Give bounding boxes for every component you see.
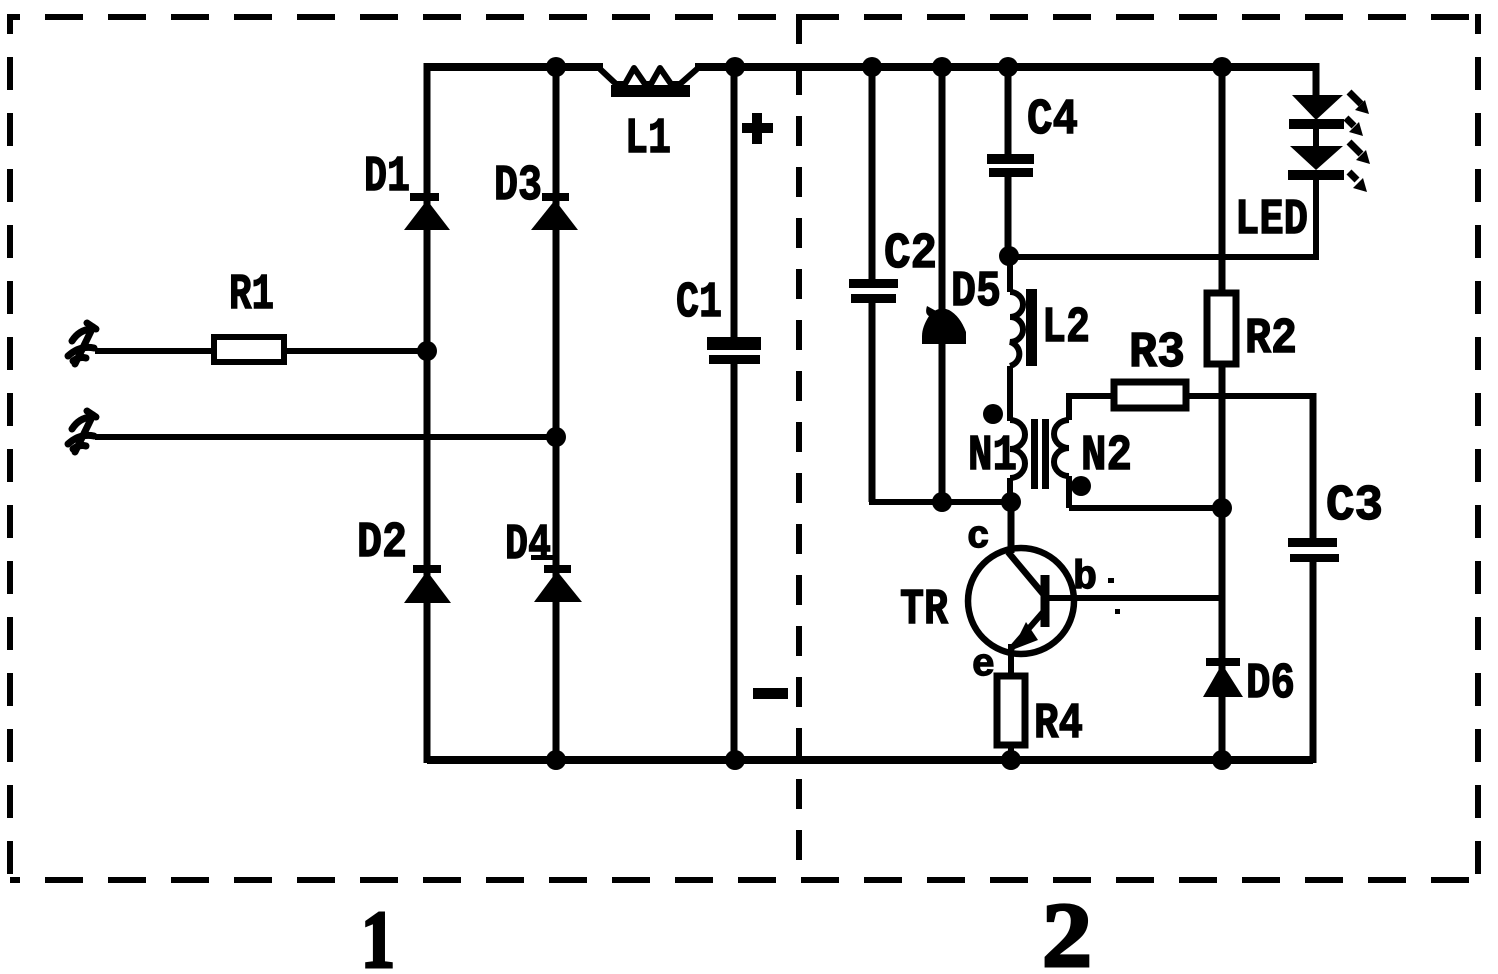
wire D1-D2 branch vertical: [424, 63, 431, 763]
wire N2 bottom row: [1069, 505, 1222, 511]
transformer winding N2: [1054, 394, 1069, 508]
junction dot bottom rail at C1: [725, 750, 745, 770]
svg-text:N1: N1: [968, 428, 1017, 485]
resistor R2: [1207, 293, 1236, 364]
svg-text:R3: R3: [1129, 325, 1185, 382]
LED branch wire: [1313, 63, 1320, 97]
diode D5 branch: [939, 63, 946, 502]
svg-text:c: c: [967, 516, 990, 559]
junction dot top rail at D5: [932, 57, 952, 77]
svg-text:D5: D5: [951, 264, 1001, 321]
capacitor C2: [849, 63, 898, 502]
bottom rail: [427, 756, 1313, 764]
svg-text:1: 1: [361, 894, 395, 974]
diode D2: [404, 565, 451, 603]
wire D3-D4 branch vertical: [553, 66, 560, 763]
junction dot top rail at C2: [862, 57, 882, 77]
minus sign of C1: [753, 688, 788, 699]
junction dot N2 row at R2 branch: [1212, 498, 1232, 518]
svg-text:R1: R1: [229, 267, 274, 324]
LED arrows 2: [1349, 142, 1370, 192]
svg-text:2: 2: [1042, 884, 1092, 974]
node B junction dot: [546, 427, 566, 447]
svg-text:LED: LED: [1235, 192, 1308, 249]
svg-text:L2: L2: [1042, 300, 1090, 357]
junction dot bottom rail at D6: [1212, 750, 1232, 770]
junction dot top rail at C1: [725, 57, 745, 77]
svg-text:R4: R4: [1034, 696, 1083, 753]
printing specks near b: [1108, 578, 1114, 583]
plus sign of C1: [742, 113, 773, 144]
inductor L2: [1010, 255, 1037, 421]
svg-text:D1: D1: [364, 149, 410, 206]
diode D6: [1203, 658, 1243, 697]
svg-text:L1: L1: [625, 111, 671, 168]
svg-text:TR: TR: [900, 582, 948, 639]
transformer core bars: [1031, 419, 1049, 489]
LED arrows 1: [1346, 92, 1369, 136]
node A junction dot: [417, 341, 437, 361]
base wire to D6 branch: [1047, 595, 1222, 601]
diode D4: [531, 555, 582, 602]
transistor TR: [968, 548, 1074, 678]
wire lower node row: [869, 499, 1011, 505]
LED diode 1: [1289, 95, 1344, 148]
resistor R2 branch wire: [1219, 63, 1226, 763]
wire R4 to bottom rail: [1008, 745, 1014, 760]
resistor R3: [1114, 382, 1186, 408]
svg-text:e: e: [972, 644, 995, 687]
svg-text:D4: D4: [505, 517, 551, 574]
junction dot top rail at D3: [546, 57, 566, 77]
svg-text:R2: R2: [1245, 311, 1297, 368]
resistor R4: [997, 676, 1025, 745]
transformer winding N1: [1010, 420, 1025, 505]
input terminal T1: [68, 323, 96, 364]
junction dot top rail at R2: [1212, 57, 1232, 77]
junction dot C4 bottom node: [999, 246, 1019, 266]
phase dot N1: [983, 404, 1003, 424]
wire LED return row: [1009, 254, 1316, 260]
top rail left of L1: [424, 63, 603, 71]
svg-text:C2: C2: [884, 226, 937, 283]
junction dot N1 bottom: [1001, 492, 1021, 512]
svg-text:C4: C4: [1027, 92, 1078, 149]
input terminal T2: [68, 411, 96, 452]
junction dot top rail at C4: [998, 57, 1018, 77]
svg-text:N2: N2: [1081, 428, 1132, 485]
wire input1 to R1: [95, 348, 216, 354]
svg-text:C3: C3: [1326, 478, 1383, 535]
diode D5: [922, 306, 966, 344]
wire input2 to node B: [95, 434, 556, 440]
capacitor C3: [1288, 393, 1339, 763]
svg-text:D3: D3: [494, 158, 542, 215]
wire N2 top to R3: [1066, 393, 1114, 399]
transistor TR collector wire: [1008, 502, 1015, 553]
svg-text:D2: D2: [357, 515, 407, 572]
dashed divider between section 1 and 2: [796, 14, 802, 880]
wire R1 to node A: [284, 348, 427, 354]
junction dot bottom rail at D4: [546, 750, 566, 770]
capacitor C1: [707, 63, 761, 762]
phase dot N2: [1071, 476, 1091, 496]
capacitor C4: [987, 63, 1034, 257]
svg-text:b: b: [1073, 556, 1097, 601]
junction dot D5 bottom: [932, 492, 952, 512]
top rail right of L1: [695, 63, 1316, 71]
diode D3: [531, 193, 578, 230]
wire R3 to C3 corner: [1186, 393, 1313, 399]
LED diode 2: [1288, 146, 1344, 260]
resistor R1: [214, 337, 284, 362]
svg-text:C1: C1: [676, 275, 722, 332]
inductor L1: [600, 68, 697, 97]
svg-text:D6: D6: [1246, 656, 1295, 713]
diode D1: [404, 193, 450, 230]
junction dot bottom rail at R4: [1001, 750, 1021, 770]
